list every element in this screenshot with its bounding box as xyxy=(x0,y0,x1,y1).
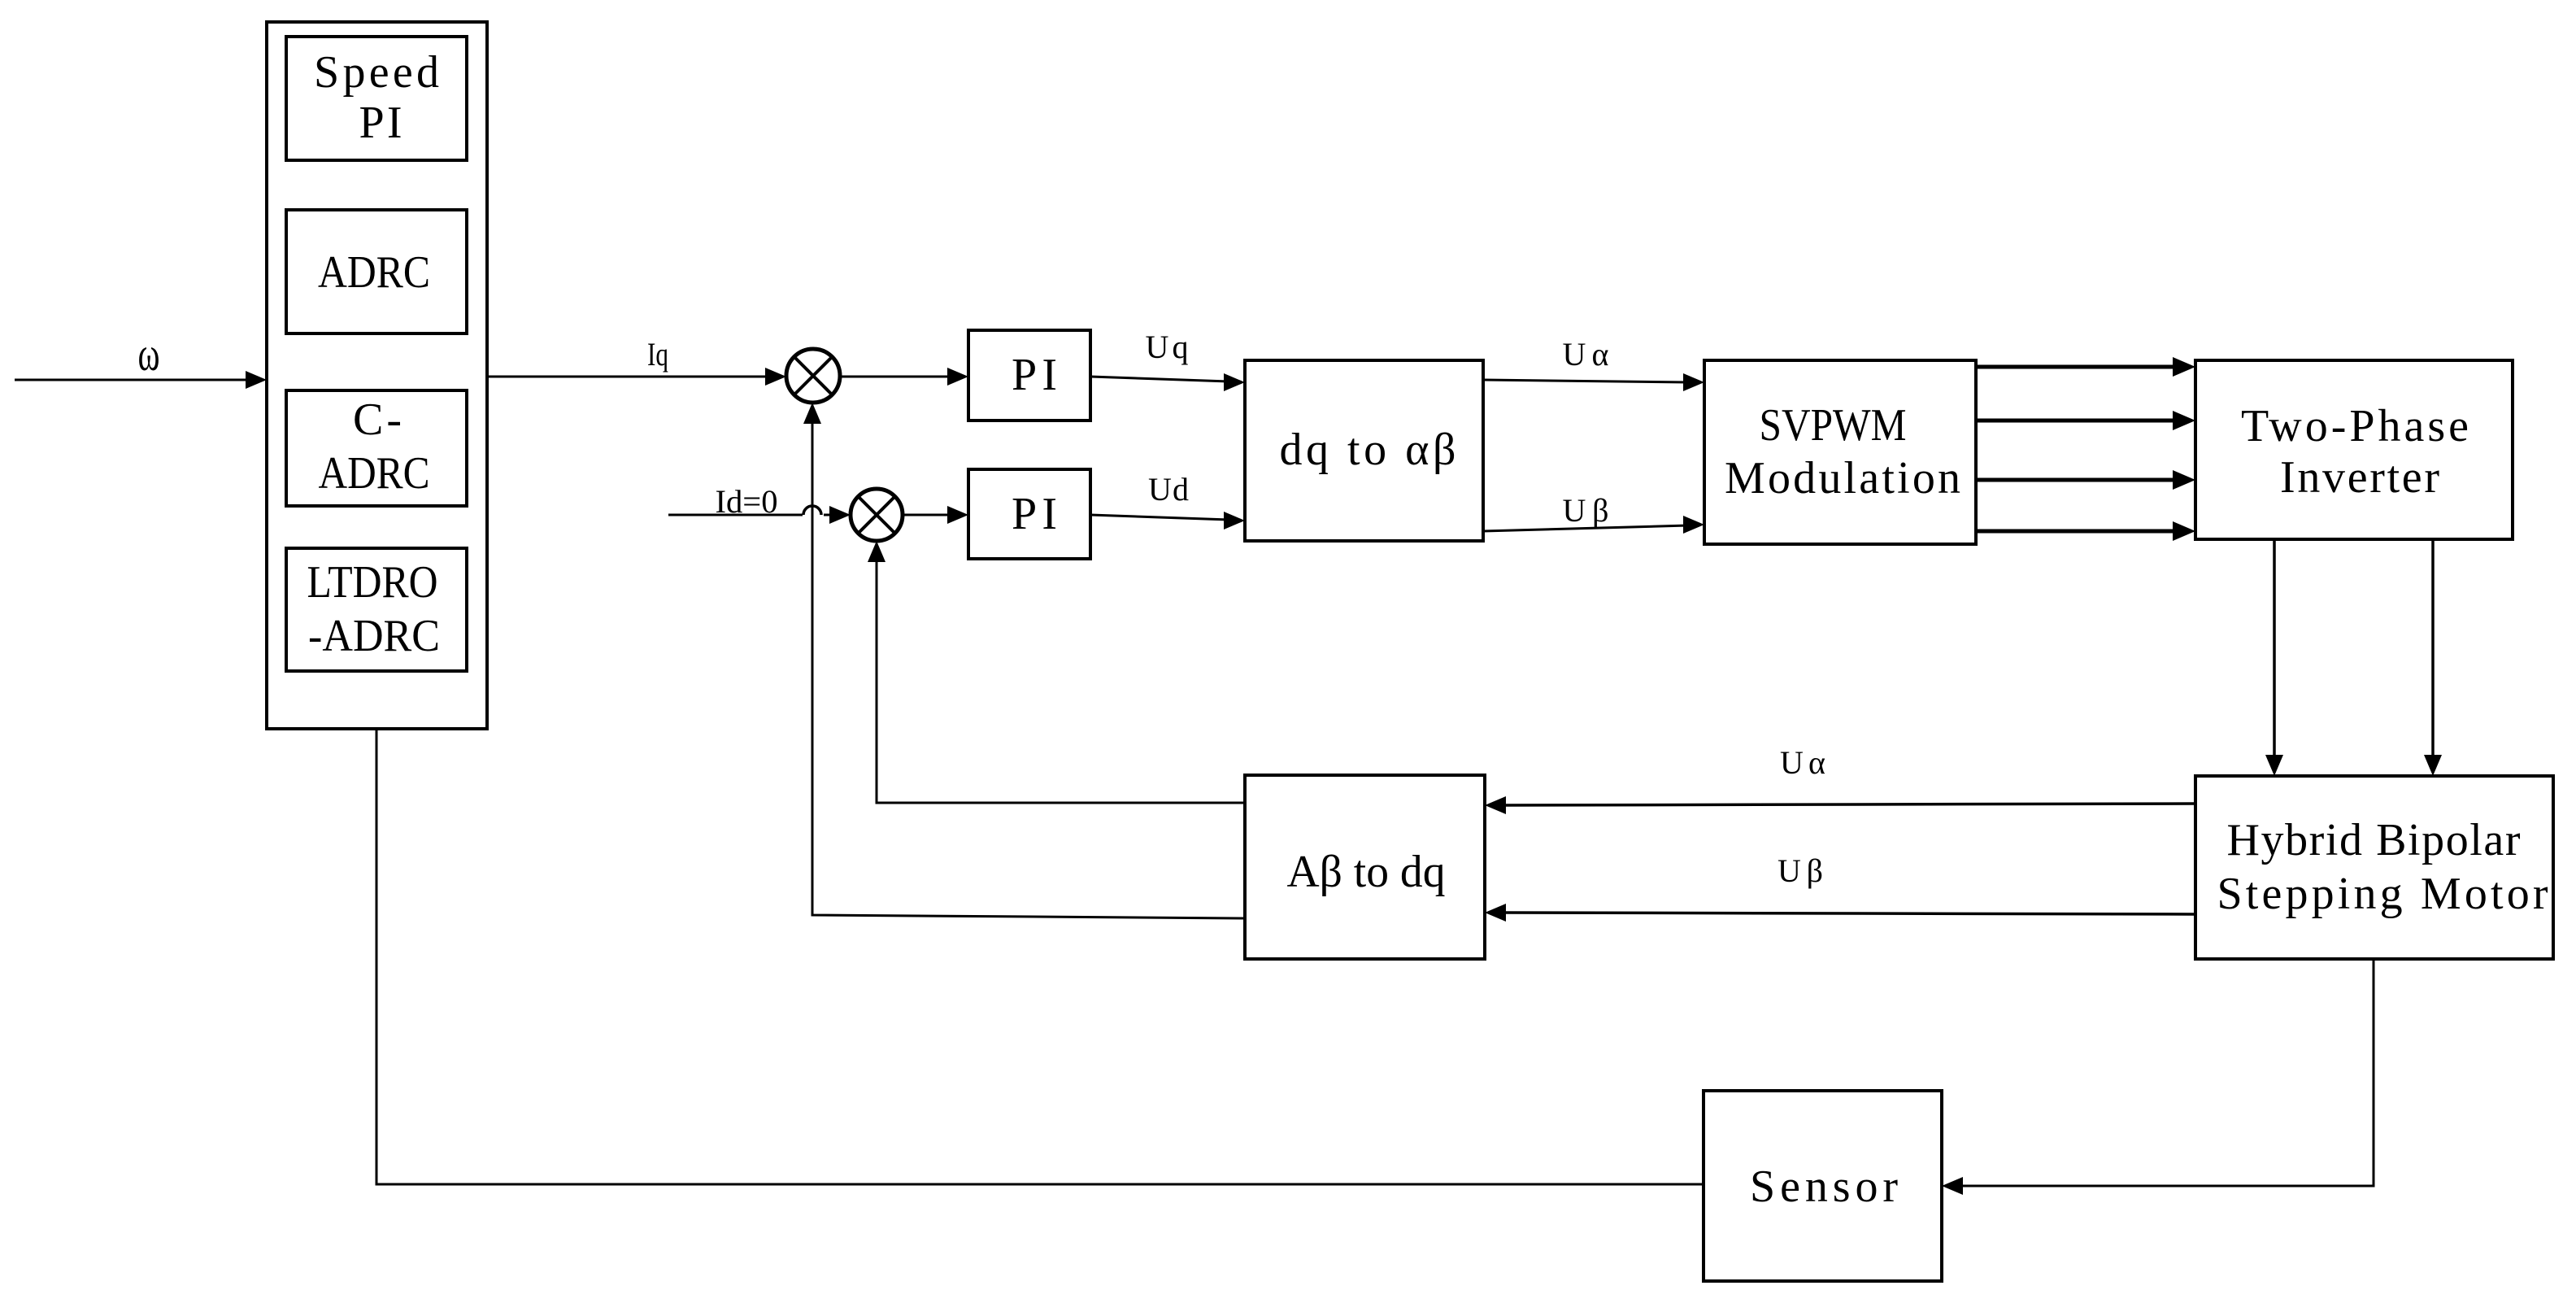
svg-text:Uβ: Uβ xyxy=(1563,492,1609,529)
wire Uq xyxy=(1090,373,1245,391)
wire inverter to motor phase B xyxy=(2424,539,2442,776)
block ADRC xyxy=(286,210,467,333)
svg-text:PI: PI xyxy=(1012,350,1057,400)
block Speed PI xyxy=(286,37,467,160)
summing junction q-axis xyxy=(786,349,840,403)
svg-text:SVPWM: SVPWM xyxy=(1760,400,1907,451)
svg-text:ADRC: ADRC xyxy=(319,448,430,499)
svg-text:ADRC: ADRC xyxy=(318,247,430,298)
wire PWM line 1 xyxy=(1976,357,2195,377)
summing junction d-axis xyxy=(851,489,903,541)
wire sensor to controller feedback xyxy=(376,729,1704,1184)
svg-text:Id=0: Id=0 xyxy=(716,483,778,520)
svg-text:Stepping Motor: Stepping Motor xyxy=(2217,869,2548,919)
wire U alpha forward xyxy=(1483,373,1704,391)
wire Iq reference xyxy=(487,368,786,386)
block PI q-axis xyxy=(968,330,1090,421)
svg-text:-ADRC: -ADRC xyxy=(308,611,440,661)
block Two-Phase Inverter xyxy=(2195,360,2513,539)
controller outer box xyxy=(267,22,487,729)
wire U alpha feedback xyxy=(1485,796,2195,814)
wire inverter to motor phase A xyxy=(2265,539,2283,776)
svg-text:Aβ to dq: Aβ to dq xyxy=(1287,847,1446,897)
svg-text:Uβ: Uβ xyxy=(1778,852,1823,889)
svg-text:ω: ω xyxy=(138,327,160,381)
wire PWM line 2 xyxy=(1976,411,2195,430)
wire PWM line 4 xyxy=(1976,521,2195,541)
wire junction d to PI d xyxy=(903,506,968,524)
svg-text:Two-Phase: Two-Phase xyxy=(2241,401,2469,451)
svg-text:Uα: Uα xyxy=(1563,336,1609,373)
svg-text:Uq: Uq xyxy=(1146,329,1189,365)
wire Id=0 input with hop xyxy=(668,506,851,524)
svg-text:PI: PI xyxy=(359,98,402,148)
svg-text:Uα: Uα xyxy=(1780,744,1825,781)
block PI d-axis xyxy=(968,469,1090,559)
svg-text:LTDRO: LTDRO xyxy=(307,557,438,608)
block A-beta to dq transform xyxy=(1245,775,1485,959)
svg-text:Iq: Iq xyxy=(647,336,668,373)
wire junction q to PI q xyxy=(840,368,968,386)
wire Id feedback to d-axis junction xyxy=(868,541,1245,803)
block LTDRO-ADRC xyxy=(286,548,467,671)
wire U beta forward xyxy=(1483,516,1704,534)
svg-text:PI: PI xyxy=(1012,489,1057,539)
svg-text:Sensor: Sensor xyxy=(1750,1161,1898,1212)
block Sensor xyxy=(1704,1091,1942,1281)
svg-text:Hybrid Bipolar: Hybrid Bipolar xyxy=(2227,815,2521,865)
wire Iq feedback to q-axis junction xyxy=(803,403,1245,918)
svg-text:C-: C- xyxy=(353,394,402,445)
svg-text:Inverter: Inverter xyxy=(2280,452,2439,503)
wire PWM line 3 xyxy=(1976,470,2195,490)
svg-text:Speed: Speed xyxy=(314,47,439,98)
block SVPWM Modulation xyxy=(1704,360,1976,544)
block C-ADRC xyxy=(286,390,467,506)
wire U beta feedback xyxy=(1485,904,2195,922)
block Hybrid Bipolar Stepping Motor xyxy=(2195,776,2553,959)
block dq to alpha-beta transform xyxy=(1245,360,1483,541)
wire omega input xyxy=(15,371,267,389)
svg-text:Ud: Ud xyxy=(1148,471,1189,508)
wire motor to sensor xyxy=(1942,959,2374,1195)
wire Ud xyxy=(1090,512,1245,530)
